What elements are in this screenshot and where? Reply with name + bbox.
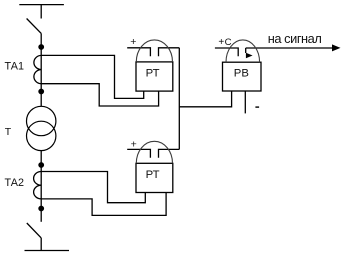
relay PT2 dome bbox=[136, 141, 172, 163]
node junction top of TA1 bbox=[38, 44, 44, 50]
relay PT1 contact right terminal bbox=[159, 48, 180, 56]
wire TA1 lower lead to PT1 coil bbox=[41, 84, 158, 106]
wire to signal output bbox=[246, 47, 334, 49]
relay PB time-delay contact arrowhead bbox=[246, 53, 253, 58]
wire TA1 upper lead to PT1 coil bbox=[41, 55, 144, 98]
svg-text:ТА2: ТА2 bbox=[5, 177, 24, 189]
relay PT1 dome bbox=[136, 40, 172, 62]
wire main feeder lower bbox=[40, 151, 42, 222]
CT TA2 winding arcs bbox=[34, 172, 42, 199]
disconnector QS2 blade bbox=[27, 223, 41, 238]
relay PB minus lead bbox=[244, 91, 246, 113]
wire TA2 upper lead to PT2 coil bbox=[41, 172, 145, 203]
svg-text:на сигнал: на сигнал bbox=[268, 31, 322, 46]
svg-text:Т: Т bbox=[5, 126, 12, 138]
node junction bottom of TA1 bbox=[38, 89, 44, 95]
signal wire arrowhead bbox=[332, 44, 341, 51]
svg-text:+: + bbox=[218, 37, 224, 48]
relay PT1 coil box bbox=[136, 62, 173, 91]
node junction bottom of TA2 bbox=[38, 206, 44, 212]
relay PB contact right terminal with arrow pin bbox=[245, 48, 247, 53]
transformer T primary circle bbox=[27, 106, 56, 135]
wire TA2 lower lead to PT2 coil bbox=[41, 192, 166, 215]
relay PT2 contact left terminal bbox=[127, 149, 150, 157]
relay PT1 contact left terminal bbox=[127, 48, 150, 56]
node junction top of TA2 bbox=[38, 162, 44, 168]
busbar bottom bbox=[25, 250, 70, 252]
wire PT contacts common bus bbox=[178, 48, 180, 150]
wire main feeder upper bbox=[40, 33, 42, 106]
relay PB coil box bbox=[223, 62, 262, 91]
CT TA1 winding arcs bbox=[34, 55, 41, 83]
label minus at PB lead bbox=[255, 106, 259, 107]
svg-text:С: С bbox=[225, 37, 232, 48]
transformer T secondary circle bbox=[27, 121, 56, 150]
disconnector QS1 blade bbox=[27, 19, 42, 34]
svg-text:РВ: РВ bbox=[234, 68, 249, 80]
relay PB contact left terminal bbox=[215, 48, 238, 56]
relay PT2 contact right terminal bbox=[159, 149, 180, 157]
wire contact bus to PB coil bbox=[179, 91, 231, 107]
svg-text:ТА1: ТА1 bbox=[5, 61, 24, 73]
svg-text:РТ: РТ bbox=[146, 169, 160, 181]
svg-text:РТ: РТ bbox=[146, 67, 160, 79]
svg-text:+: + bbox=[130, 36, 136, 48]
busbar top bbox=[19, 4, 64, 6]
relay PB dome bbox=[226, 40, 260, 62]
wire QS2 to busbar bottom bbox=[40, 238, 42, 251]
wire busbar to disconnector QS1 bbox=[40, 5, 42, 19]
svg-text:+: + bbox=[131, 138, 137, 150]
relay PT2 coil box bbox=[136, 163, 173, 192]
